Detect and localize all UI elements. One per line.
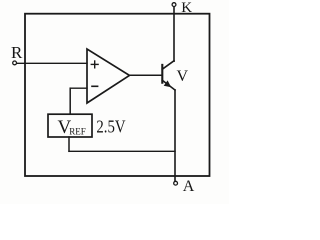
svg-text:A: A	[183, 178, 195, 195]
transistor V base bar	[161, 65, 163, 83]
emitter arrowhead	[164, 80, 172, 87]
terminal A	[174, 181, 178, 185]
wire Vref bottom	[68, 137, 70, 151]
op-amp plus input symbol	[91, 61, 98, 68]
wire minus input	[70, 87, 87, 89]
wire op-amp output to base	[130, 74, 162, 76]
terminal R	[13, 61, 17, 65]
wire bottom horizontal to emitter node	[69, 150, 175, 152]
svg-text:R: R	[11, 43, 23, 62]
wire K to collector	[173, 7, 175, 61]
terminal K	[172, 3, 176, 7]
op-amp U1	[87, 49, 130, 103]
wire feedback vertical to Vref	[69, 88, 71, 114]
svg-text:REF: REF	[69, 126, 86, 136]
wire emitter to A	[174, 90, 176, 181]
wire R to op-amp + input	[17, 62, 87, 64]
op-amp minus input symbol	[92, 85, 98, 87]
transistor emitter diagonal with arrow	[162, 80, 175, 90]
outer box	[25, 14, 210, 176]
transistor collector diagonal	[162, 61, 174, 69]
svg-text:V: V	[177, 68, 189, 85]
svg-text:2.5V: 2.5V	[96, 116, 125, 137]
svg-text:K: K	[181, 0, 192, 16]
Vref box	[48, 114, 92, 137]
